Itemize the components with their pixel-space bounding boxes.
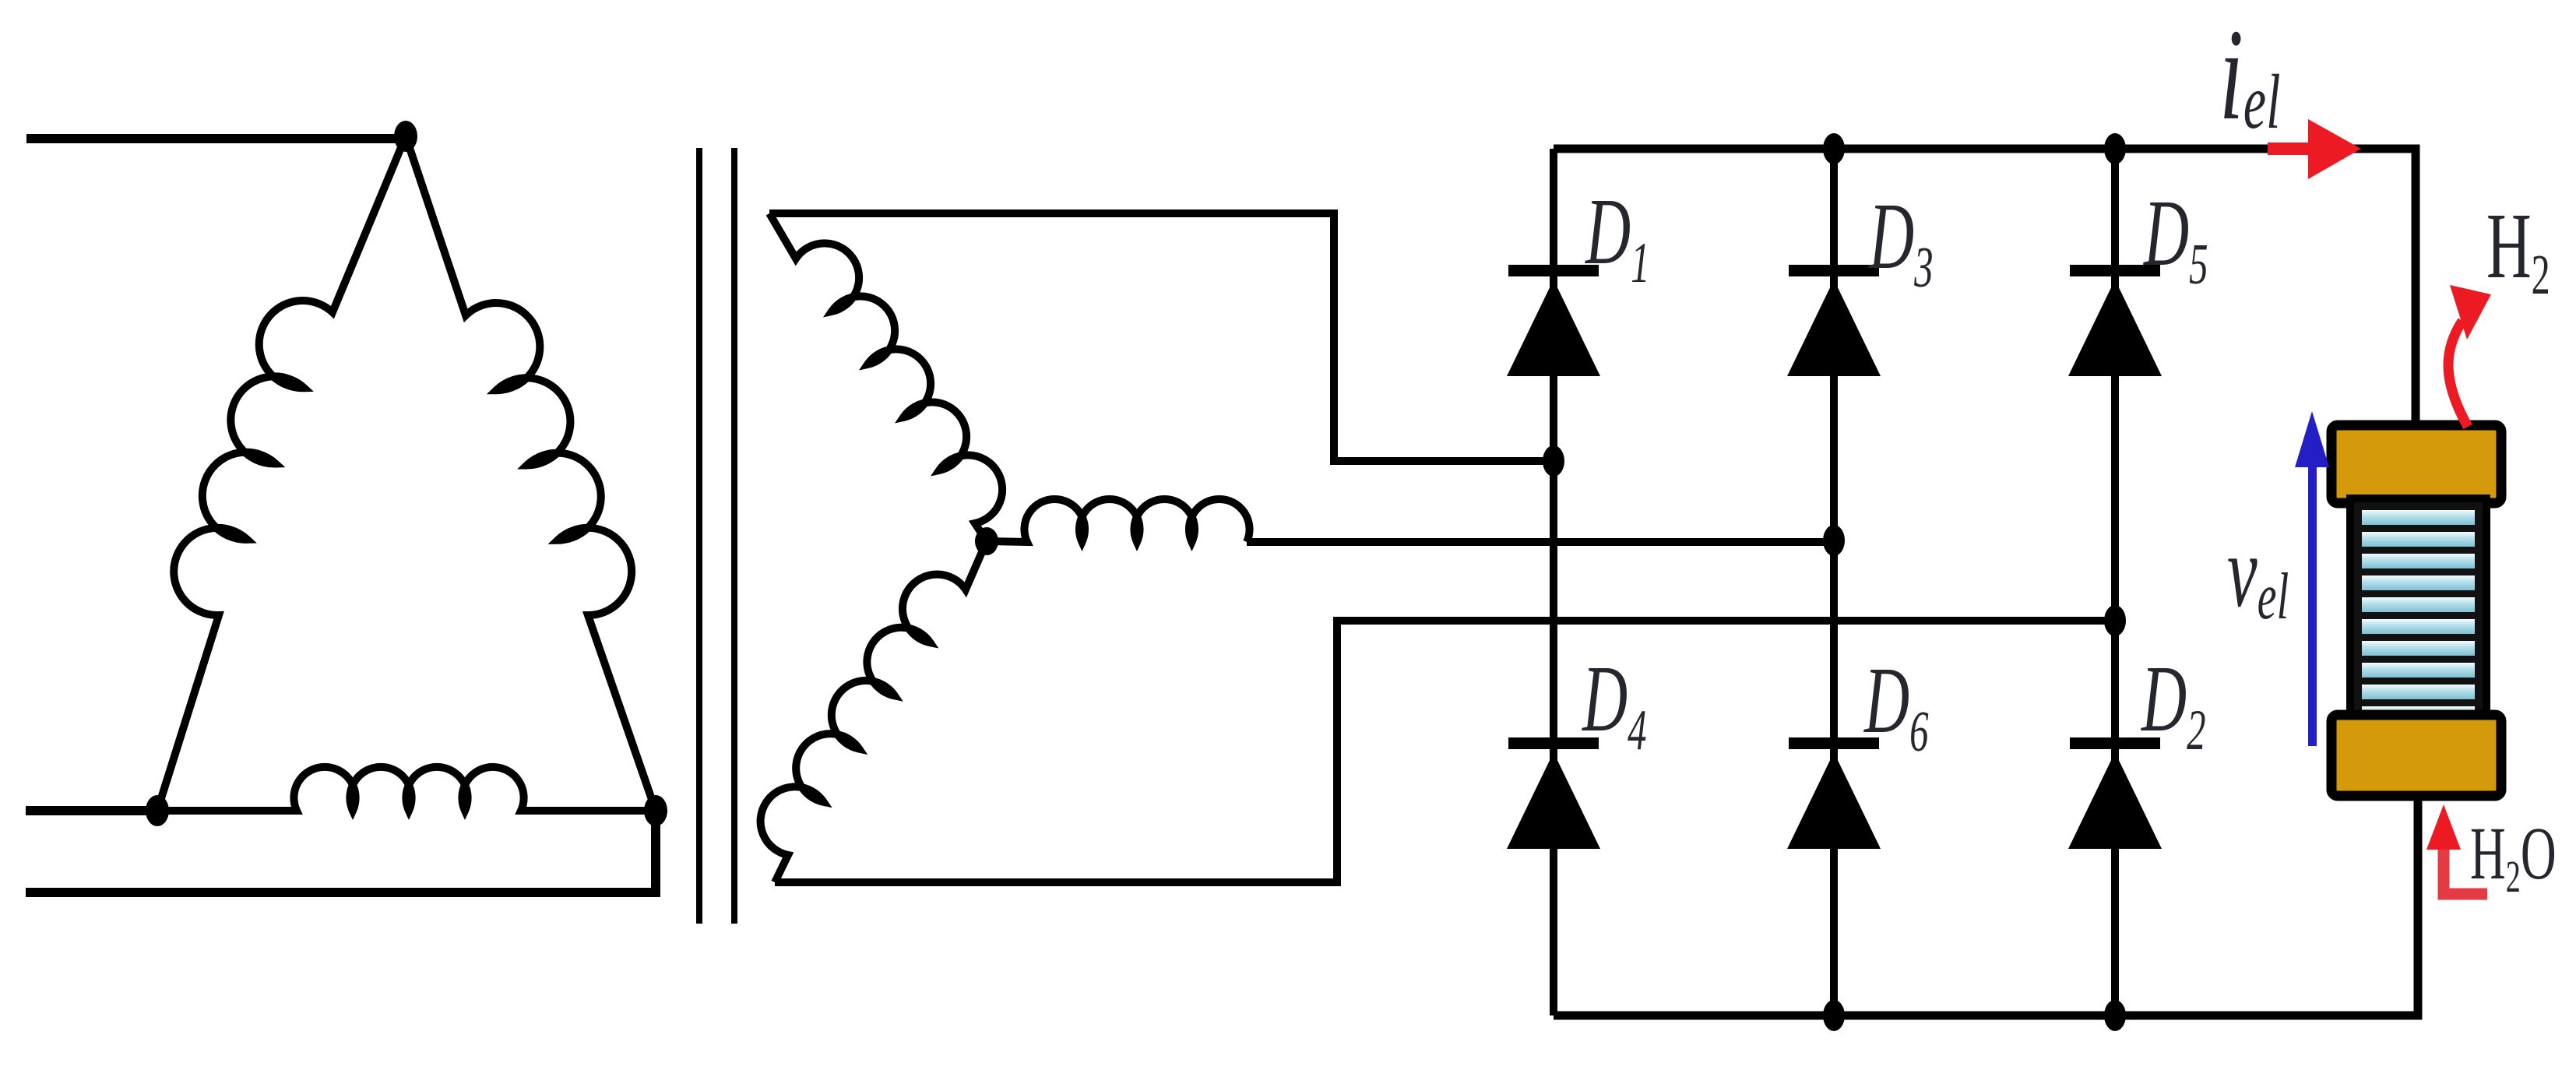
diode D2 [2068, 737, 2162, 849]
node: phase c junction [2104, 605, 2126, 636]
H2 outlet arrow [2448, 285, 2491, 427]
current arrow i_el [2268, 119, 2361, 179]
wire: bridge leg D1/D4 [1550, 149, 1557, 1015]
node: D6 bottom bus junction [1823, 1000, 1845, 1031]
wire: phase c from winding to bridge D5-D2 [775, 621, 2115, 882]
wire: DC positive bus [1554, 149, 2416, 426]
node: D2 bottom bus junction [2104, 1000, 2126, 1031]
diode D6 [1787, 737, 1881, 849]
secondary wye winding, phase c (lower-left) [761, 541, 987, 882]
diode D3 [1787, 265, 1881, 376]
transformer primary delta winding, side apex to bottom-left [157, 136, 406, 811]
electrolyzer cell stack [2350, 498, 2486, 721]
secondary wye winding, phase a (upper-left) [769, 213, 1002, 541]
electrolyzer top electrode [2331, 425, 2501, 503]
node: delta bottom-left junction [146, 795, 169, 826]
wire: phase b from winding to bridge D3-D6 [1247, 538, 1834, 546]
electrolyzer bottom electrode [2331, 715, 2501, 796]
wire: three-phase input line L2 [26, 806, 157, 815]
wire: three-phase input line L3 [26, 811, 656, 892]
node: phase a junction [1543, 445, 1564, 477]
diode D4 [1507, 737, 1600, 849]
node: D5 top bus junction [2104, 133, 2126, 164]
wire: DC negative bus [1554, 796, 2418, 1015]
node: wye neutral point [975, 527, 998, 555]
wire: bridge leg D5/D2 [2111, 149, 2119, 1015]
transformer primary delta winding, bottom side [157, 767, 656, 811]
secondary wye winding, phase b (horizontal) [987, 499, 1250, 542]
wire: three-phase input line L1 [26, 134, 406, 143]
diode D5 [2068, 265, 2162, 376]
node: D3 top bus junction [1823, 133, 1845, 164]
transformer primary delta winding, side apex to bottom-right [406, 136, 656, 811]
transformer core [696, 148, 702, 924]
voltage arrow v_el [2295, 411, 2329, 746]
diode D1 [1507, 265, 1600, 376]
node: delta apex junction [394, 121, 417, 152]
node: phase b junction [1823, 525, 1845, 556]
wire: phase a from winding to bridge D1-D4 [769, 213, 1554, 461]
H2O inlet arrow [2426, 804, 2487, 894]
node: delta bottom-right junction [644, 795, 667, 826]
wire: bridge leg D3/D6 [1830, 149, 1838, 1015]
